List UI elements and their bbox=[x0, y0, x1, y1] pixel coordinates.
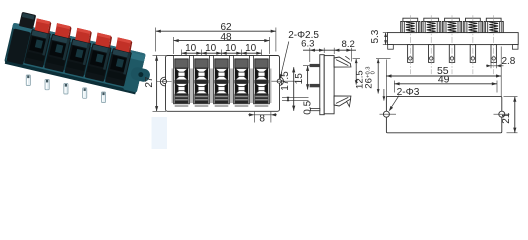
svg-text:0.5: 0.5 bbox=[303, 100, 314, 114]
side view: upper solder pin bbox=[310, 64, 320, 67]
dim 48 bbox=[173, 37, 175, 54]
svg-text:15: 15 bbox=[294, 73, 305, 85]
dim 8 (strip width) bbox=[253, 112, 255, 123]
svg-text:27: 27 bbox=[144, 76, 155, 88]
spring terminal 1 (rear elevation) bbox=[401, 15, 420, 74]
front view mounting hole right bbox=[277, 79, 281, 83]
dim 55 bbox=[386, 75, 501, 77]
svg-text:21: 21 bbox=[501, 112, 512, 124]
front view mounting hole left (2-phi2.5) bbox=[163, 80, 167, 84]
svg-text:6.3: 6.3 bbox=[301, 39, 314, 50]
side view dims 6.3 / 8.2 bbox=[309, 48, 311, 62]
svg-text:49: 49 bbox=[438, 73, 450, 85]
dim 15 bbox=[307, 66, 309, 90]
terminal strip 1 (front view) bbox=[172, 56, 192, 107]
svg-text:0: 0 bbox=[371, 71, 377, 74]
spring terminal 2 (rear elevation) bbox=[422, 15, 441, 74]
terminal strip 5 (front view) bbox=[252, 56, 272, 107]
bar end feet bbox=[388, 45, 394, 50]
photo: speaker terminal block (perspective product image) bbox=[4, 10, 158, 102]
svg-text:48: 48 bbox=[220, 32, 232, 43]
dims 10 x4 (pitch) bbox=[181, 50, 183, 56]
dim 0.5 (bottom standoff) bbox=[282, 96, 309, 98]
dim 2.8 (pin width) bbox=[490, 61, 492, 68]
dim 21 (plan depth) bbox=[504, 96, 518, 98]
svg-text:17.5: 17.5 bbox=[280, 71, 291, 91]
svg-text:2.8: 2.8 bbox=[501, 56, 515, 67]
front view: body outline with mounting ears bbox=[160, 77, 169, 86]
svg-text:10: 10 bbox=[225, 43, 237, 54]
dim 49 bbox=[393, 81, 395, 93]
plan view: right phi3 hole on edge bbox=[499, 111, 505, 117]
side view: lower spring clip profile bbox=[334, 96, 351, 106]
side view: bottom-left foot step bbox=[310, 108, 319, 110]
dim 62 (overall width) bbox=[155, 28, 157, 52]
spring terminal 3 (rear elevation) bbox=[442, 15, 461, 74]
side view: lower solder pin bbox=[310, 84, 320, 87]
side view: flange plate bbox=[320, 55, 324, 115]
dims 12.5 / 26+0.3 (height references) bbox=[353, 58, 361, 60]
svg-text:8: 8 bbox=[259, 114, 265, 125]
terminal strip 3 (front view) bbox=[212, 56, 232, 107]
rear elevation: mounting bar bbox=[388, 33, 519, 45]
svg-text:2-Φ3: 2-Φ3 bbox=[397, 87, 420, 98]
extension lines from elevation to plan (55 dim / hole centers) bbox=[385, 60, 387, 111]
spring terminal 5 (rear elevation) bbox=[484, 15, 503, 74]
plan view: body outline bbox=[386, 97, 501, 133]
svg-text:10: 10 bbox=[205, 43, 217, 54]
svg-text:10: 10 bbox=[185, 43, 197, 54]
dim 5.3 (bar height) bbox=[383, 32, 389, 34]
svg-text:5.3: 5.3 bbox=[370, 29, 381, 43]
terminal strip 4 (front view) bbox=[232, 56, 252, 107]
side view: upper spring clip profile bbox=[334, 57, 351, 67]
faint blue watermark band lower-left of drawing bbox=[152, 117, 168, 149]
dim 17.5 bbox=[293, 67, 295, 111]
spring terminal 4 (rear elevation) bbox=[463, 15, 482, 74]
page background bbox=[0, 0, 528, 149]
plan view: left phi3 hole on edge bbox=[383, 111, 389, 117]
terminal strip 2 (front view) bbox=[192, 56, 212, 107]
dim 27 (height) bbox=[153, 55, 167, 57]
svg-text:10: 10 bbox=[245, 43, 257, 54]
side view: body block bbox=[324, 56, 334, 114]
svg-text:8.2: 8.2 bbox=[342, 39, 355, 50]
svg-text:26: 26 bbox=[364, 78, 375, 89]
